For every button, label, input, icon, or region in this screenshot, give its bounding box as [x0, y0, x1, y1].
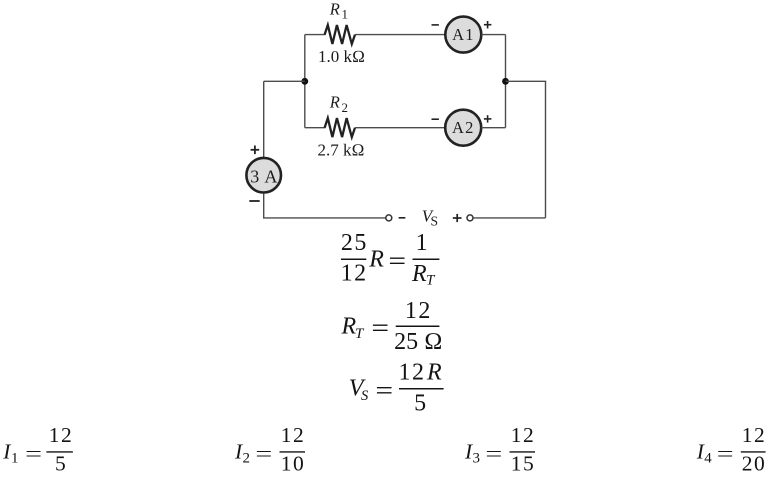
- ammeter A2: [445, 110, 481, 146]
- svg-text:15: 15: [511, 452, 536, 476]
- svg-text:S: S: [361, 388, 369, 404]
- svg-text:12: 12: [281, 423, 306, 447]
- svg-text:1.0 kΩ: 1.0 kΩ: [318, 47, 365, 66]
- svg-text:1: 1: [342, 7, 349, 22]
- svg-text:12: 12: [49, 423, 74, 447]
- svg-text:T: T: [426, 272, 436, 288]
- svg-text:3 A: 3 A: [250, 166, 278, 186]
- svg-text:4: 4: [704, 450, 712, 466]
- svg-text:=: =: [255, 442, 272, 466]
- svg-text:20: 20: [742, 452, 767, 476]
- svg-text:5: 5: [55, 452, 66, 476]
- wire: A2 branch middle: [355, 127, 445, 129]
- svg-text:=: =: [371, 313, 389, 342]
- equation 1: 25/12 R = 1/RT: [341, 230, 440, 288]
- equation 3: VS = 12 R / 5: [349, 360, 444, 417]
- wire: right rail vertical: [505, 35, 507, 128]
- equation 2: RT = 12/(25 Ohm): [341, 298, 443, 355]
- svg-text:T: T: [355, 326, 365, 342]
- svg-text:12: 12: [742, 423, 767, 447]
- svg-text:=: =: [485, 442, 502, 466]
- wire: A2 branch left lead: [305, 127, 326, 129]
- svg-text:12: 12: [341, 260, 368, 286]
- svg-text:2: 2: [243, 450, 251, 466]
- wire: right vertical from bottom: [545, 81, 547, 218]
- label plus of Vs: [453, 214, 462, 222]
- svg-text:12: 12: [405, 298, 432, 324]
- equation I1 = 12/5: [2, 423, 73, 475]
- label R2: [329, 93, 348, 115]
- polarity plus of A2: [484, 115, 492, 122]
- wire: bottom right segment: [473, 217, 545, 219]
- svg-text:S: S: [431, 214, 439, 229]
- resistor R2: [325, 118, 355, 137]
- value label 1.0 kOhm: [318, 47, 365, 66]
- svg-text:1: 1: [416, 230, 428, 256]
- svg-text:=: =: [717, 442, 734, 466]
- terminal: Vs plus: [467, 215, 473, 221]
- wire: stub from right junction: [506, 80, 547, 82]
- label minus of Vs: [399, 217, 406, 219]
- svg-text:5: 5: [414, 391, 426, 417]
- svg-text:A2: A2: [452, 118, 475, 137]
- svg-text:R: R: [411, 261, 427, 287]
- wire: top branch middle: [355, 34, 446, 36]
- node: right junction: [502, 78, 509, 85]
- svg-text:1: 1: [11, 450, 19, 466]
- svg-text:R: R: [368, 247, 384, 273]
- polarity plus of source: [251, 146, 260, 155]
- equation I4 = 12/20: [696, 423, 767, 475]
- terminal: Vs minus: [386, 215, 392, 221]
- ammeter A1: [445, 17, 481, 53]
- equation I2 = 12/10: [234, 423, 305, 475]
- wire: A2 branch right: [481, 127, 505, 129]
- svg-text:10: 10: [281, 452, 306, 476]
- wire: left vertical down to source: [263, 81, 265, 157]
- wire: top branch left lead: [305, 34, 326, 36]
- svg-text:R: R: [329, 93, 340, 112]
- svg-text:25 Ω: 25 Ω: [394, 329, 442, 355]
- svg-text:2: 2: [342, 100, 349, 115]
- svg-text:3: 3: [473, 450, 481, 466]
- svg-text:I: I: [2, 440, 11, 464]
- svg-text:2.7 kΩ: 2.7 kΩ: [318, 141, 365, 160]
- wire: stub from left rail to source branch: [264, 80, 305, 82]
- equation I3 = 12/15: [464, 423, 535, 475]
- wire: below source: [263, 194, 265, 218]
- wire: bottom left segment: [263, 217, 386, 219]
- node: left junction: [301, 78, 308, 85]
- svg-text:12: 12: [399, 360, 426, 386]
- value label 2.7 kOhm: [318, 141, 365, 160]
- resistor R1: [325, 25, 355, 44]
- svg-text:=: =: [25, 442, 42, 466]
- svg-text:A1: A1: [452, 25, 475, 44]
- polarity plus of A1: [484, 21, 492, 28]
- polarity minus of A2: [432, 118, 439, 120]
- svg-text:=: =: [375, 376, 393, 405]
- svg-text:=: =: [388, 247, 406, 276]
- svg-text:12: 12: [511, 423, 536, 447]
- svg-text:R: R: [426, 360, 442, 386]
- wire: left rail vertical: [304, 35, 306, 128]
- polarity minus of A1: [432, 24, 439, 26]
- svg-text:25: 25: [341, 230, 368, 256]
- current source 3 A: [246, 158, 281, 193]
- label Vs: [422, 206, 438, 228]
- wire: top branch right: [481, 34, 505, 36]
- label R1: [329, 0, 348, 22]
- svg-text:R: R: [329, 0, 340, 19]
- polarity minus of source: [249, 200, 259, 202]
